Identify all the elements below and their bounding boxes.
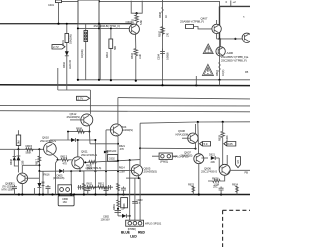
svg-text:5.9: 5.9 xyxy=(204,142,208,146)
svg-text:100K: 100K xyxy=(225,135,229,141)
transistor Q409 right edge xyxy=(242,33,251,42)
callout 2.7V mid xyxy=(77,96,90,100)
wire P601 stub xyxy=(152,155,177,157)
wire right feedback line xyxy=(140,122,250,123)
svg-text:R681: R681 xyxy=(112,204,116,210)
capacitor C401 top xyxy=(56,0,62,3)
wire box right leg xyxy=(99,24,101,80)
wire Q610 emitter xyxy=(52,154,57,160)
svg-text:R624: R624 xyxy=(232,182,238,186)
svg-text:+2: +2 xyxy=(233,0,237,4)
svg-text:470: 470 xyxy=(63,161,68,165)
wire y149.3 input xyxy=(0,148,44,150)
svg-text:R608: R608 xyxy=(76,127,82,131)
wire top rail xyxy=(0,23,132,25)
svg-text:HPLG-3P101: HPLG-3P101 xyxy=(145,222,162,226)
node on thick rail xyxy=(195,84,197,86)
transistor Q408 xyxy=(216,47,225,56)
svg-text:(D606-D5): (D606-D5) xyxy=(53,176,64,180)
cap above rail b xyxy=(46,185,51,195)
resistor R626 zigzag xyxy=(208,175,225,182)
wire vertical x164 xyxy=(162,0,164,85)
svg-text:R507: R507 xyxy=(158,31,162,37)
resistor R402 with thermal box xyxy=(85,24,87,80)
resistor R615 box 1.0M xyxy=(17,130,19,135)
transistor Q608 xyxy=(188,133,198,143)
transistor Q401 xyxy=(129,24,139,34)
transistor Q607 xyxy=(194,154,204,164)
wire Q608 collector up xyxy=(195,124,197,134)
wire Q604 collector from corner xyxy=(117,98,119,125)
wire Q613 emitter down xyxy=(21,184,23,195)
wire bias line xyxy=(58,89,91,91)
resistor R504 zigzag xyxy=(134,49,138,59)
wire y143.8 xyxy=(90,143,118,145)
resistor R609 zigzag xyxy=(77,130,85,133)
wire x198 down xyxy=(197,122,200,153)
resistor R617 xyxy=(38,149,40,194)
svg-text:270: 270 xyxy=(165,32,169,37)
svg-text:(2SC1740S-S): (2SC1740S-S) xyxy=(86,166,102,170)
svg-text:2SA968-Y(TP88_F): 2SA968-Y(TP88_F) xyxy=(180,19,204,23)
svg-text:C504: C504 xyxy=(157,54,161,60)
resistor R507 zigzag xyxy=(161,27,165,37)
svg-text:KRA102M: KRA102M xyxy=(176,132,189,136)
resistor R619 vertical xyxy=(94,140,96,195)
wire Q605 emitter down xyxy=(139,175,141,220)
cap above rail c xyxy=(85,187,90,195)
svg-text:16C: 16C xyxy=(63,200,68,204)
svg-text:R508: R508 xyxy=(158,12,162,18)
wire Q607 base right diode xyxy=(201,157,208,159)
svg-text:PB: PB xyxy=(245,170,249,174)
wire main thick rail xyxy=(0,84,250,87)
component row above rail: caps xyxy=(12,185,17,195)
connector LED 3P xyxy=(126,220,144,226)
svg-text:R504: R504 xyxy=(130,53,134,59)
resistor R620 zigzag xyxy=(89,161,97,164)
svg-text:2.7V: 2.7V xyxy=(78,97,84,101)
wire emitter bus xyxy=(217,38,243,40)
svg-text:R611: R611 xyxy=(87,182,93,186)
resistor R618 zigzag vertical xyxy=(83,183,86,190)
resistor R624 vertical xyxy=(236,186,239,195)
svg-text:R612: R612 xyxy=(98,182,104,186)
wire Q613 base right xyxy=(25,177,39,179)
svg-text:C602: C602 xyxy=(109,157,115,161)
wire box left leg xyxy=(77,24,79,80)
wire base line Q401 xyxy=(78,27,129,29)
warning triangle 1 xyxy=(203,44,213,54)
svg-text:D402: D402 xyxy=(62,62,66,68)
svg-text:R608 220: R608 220 xyxy=(106,149,117,153)
svg-text:R617: R617 xyxy=(34,159,38,165)
capacitor C504 xyxy=(160,49,165,59)
svg-text:560: 560 xyxy=(113,45,117,50)
capacitor C612 xyxy=(79,185,81,190)
callout small xyxy=(186,25,194,29)
svg-text:2SC3246-B(-TP92_F): 2SC3246-B(-TP92_F) xyxy=(94,24,121,28)
resistor R613 zigzag xyxy=(58,158,72,161)
wire Q613 collector up xyxy=(21,165,23,173)
svg-text:R616: R616 xyxy=(44,173,50,177)
svg-text:[P601]: [P601] xyxy=(160,159,168,163)
wire vertical x139.9 xyxy=(139,123,141,165)
loop antenna top xyxy=(131,1,142,13)
wire rail V+ upper xyxy=(78,79,250,81)
connector box 2pin above rail xyxy=(58,185,72,194)
wire C602 chain vertical x106 xyxy=(105,130,107,195)
resistor R615 zigzag xyxy=(26,148,34,151)
resistor zigzag y187 a xyxy=(87,186,95,189)
wire Q612 chain down xyxy=(88,132,91,144)
wire rail mid1 xyxy=(118,98,250,99)
wire Q604 base left xyxy=(106,129,113,131)
wire x55 drop xyxy=(56,160,58,195)
wire Q604 emitter down x118 xyxy=(116,135,118,194)
wire Q401 emitter down xyxy=(135,34,137,80)
node feedback left xyxy=(197,121,199,123)
transistor Q610 xyxy=(44,143,57,156)
wire Q611 collector up xyxy=(77,140,79,157)
capacitor C680 box xyxy=(58,196,74,206)
diode D680 xyxy=(122,214,126,218)
svg-text:D608: D608 xyxy=(9,159,13,165)
svg-text:4.8: 4.8 xyxy=(236,160,240,164)
resistor R681 below rail xyxy=(117,195,120,216)
svg-text:10K(1W): 10K(1W) xyxy=(69,34,73,44)
diode D609 xyxy=(37,183,41,187)
wire Q407 collector-emitter xyxy=(216,20,218,39)
wire left vertical to rail xyxy=(58,0,60,24)
svg-text:5.6K: 5.6K xyxy=(139,20,143,25)
wire vertical x99 xyxy=(98,1,100,79)
svg-text:2SC2655-Y(TP88_F): 2SC2655-Y(TP88_F) xyxy=(221,59,247,63)
diode D602 xyxy=(104,151,108,154)
relay box RY401 xyxy=(78,0,99,24)
svg-text:R614: R614 xyxy=(119,165,125,169)
wire x71 down xyxy=(70,171,72,195)
svg-text:R410: R410 xyxy=(105,52,109,58)
wire x68 down xyxy=(67,132,69,140)
transistor Q612 xyxy=(81,114,93,126)
wire bias corner down xyxy=(89,90,91,114)
wire y140 xyxy=(50,139,95,141)
wire y131.6 xyxy=(68,131,89,133)
resistor R403 vertical branch xyxy=(66,24,68,90)
svg-text:0.05: 0.05 xyxy=(227,142,233,146)
wire Q606 emitter right xyxy=(227,170,250,174)
svg-text:10 (F): 10 (F) xyxy=(221,69,225,76)
wire bottom thick rail xyxy=(0,194,250,196)
wire Q606 collector up xyxy=(226,155,228,165)
resistor R620 zigzag vertical x118 xyxy=(117,183,120,190)
svg-text:1.0M: 1.0M xyxy=(17,140,21,146)
node rail dots xyxy=(18,193,20,195)
svg-text:560K: 560K xyxy=(26,150,32,154)
wire LED pins vertical xyxy=(129,160,131,220)
transistor Q407 xyxy=(212,24,221,33)
cap above rail d xyxy=(104,187,109,195)
wire output top right xyxy=(220,5,251,7)
wire Q612 emitter down xyxy=(88,125,90,132)
capacitor C613 xyxy=(109,185,111,190)
resistor R503 zigzag xyxy=(135,13,139,24)
wire Q610 collector up xyxy=(49,140,51,143)
wire Q607 emitter down xyxy=(198,164,200,195)
cap above rail f xyxy=(219,187,224,195)
wire collector feed y162 xyxy=(85,160,140,163)
svg-text:206: 206 xyxy=(211,160,216,164)
transistor Q605 xyxy=(131,165,142,176)
tick x34 xyxy=(33,188,35,195)
wire Q407 base xyxy=(194,27,213,29)
svg-text:1R(1W): 1R(1W) xyxy=(80,49,84,58)
svg-text:R629: R629 xyxy=(217,135,221,141)
wire Q608 base xyxy=(182,137,190,139)
svg-text:R613: R613 xyxy=(61,154,68,158)
diode D605 xyxy=(59,169,63,173)
svg-text:R502: R502 xyxy=(131,19,135,25)
wire output vertical xyxy=(219,6,221,39)
callout 2.7V xyxy=(52,45,65,49)
transistor Q613 xyxy=(17,173,28,184)
svg-text:1K: 1K xyxy=(164,15,168,18)
diode D604 on y140 xyxy=(71,138,75,142)
cap above rail e xyxy=(121,187,126,195)
wire top edge xyxy=(59,1,220,6)
capacitor marks on pin2 xyxy=(132,201,137,203)
wire rail mid3 xyxy=(0,111,250,112)
wire to diode xyxy=(118,215,122,217)
capacitor C682 xyxy=(115,210,122,212)
svg-text:C611: C611 xyxy=(9,182,15,186)
wire y178 stub xyxy=(126,177,139,179)
capacitor C602 box xyxy=(108,154,118,161)
svg-text:2SA933(S): 2SA933(S) xyxy=(144,170,157,174)
svg-text:25C: 25C xyxy=(213,185,218,189)
wire to thick rail xyxy=(219,80,221,86)
svg-text:D621: D621 xyxy=(209,153,215,157)
resistor R623 vertical xyxy=(192,186,195,195)
svg-text:RED: RED xyxy=(138,230,146,234)
wire rail mid2 xyxy=(0,105,250,107)
node junction out xyxy=(218,38,220,40)
wire Q608 emitter down xyxy=(195,142,197,148)
svg-text:2SA933(S): 2SA933(S) xyxy=(67,115,80,119)
connector P601 xyxy=(159,153,172,159)
diode on rail xyxy=(70,193,73,194)
resistor box 100K below rail xyxy=(121,198,128,208)
svg-text:100-16V: 100-16V xyxy=(101,218,110,222)
callout 5.9 xyxy=(200,142,211,147)
warning triangle 2 xyxy=(202,64,213,75)
resistor zigzag y187 b xyxy=(98,186,106,189)
svg-text:2SC1740S-S: 2SC1740S-S xyxy=(201,170,217,174)
wire into Q606 base xyxy=(218,158,221,170)
transistor Q611 xyxy=(72,157,84,169)
callout 4.8 vertical xyxy=(236,157,241,168)
wire Q611 emitter down xyxy=(80,168,84,195)
node junction xyxy=(98,23,100,25)
transistor Q604 xyxy=(110,124,122,136)
svg-text:100K: 100K xyxy=(122,203,126,209)
wire y171 xyxy=(39,169,134,172)
transistor Q606 xyxy=(219,164,230,175)
wire x222.7 down xyxy=(222,122,224,131)
svg-text:C401: C401 xyxy=(48,3,54,7)
diode D608 xyxy=(17,149,19,172)
wire y187 xyxy=(78,186,114,188)
diode D402 xyxy=(65,51,69,55)
svg-text:2SC1740S-S: 2SC1740S-S xyxy=(81,153,97,157)
svg-text:33B: 33B xyxy=(21,160,25,165)
callout 0.05 xyxy=(224,142,236,147)
resistor R516 xyxy=(219,39,221,80)
svg-text:R623: R623 xyxy=(188,182,194,186)
wire y165 xyxy=(22,164,39,166)
resistor R410 vertical xyxy=(110,28,112,80)
resistor R629 zigzag xyxy=(221,131,224,137)
svg-text:3.3K: 3.3K xyxy=(138,54,142,59)
node junction xyxy=(57,23,59,25)
svg-text:R626: R626 xyxy=(212,177,219,181)
wire x43 drop xyxy=(42,171,44,194)
svg-text:47K: 47K xyxy=(120,147,125,151)
wire Q612 base left xyxy=(70,119,84,121)
svg-text:MTK-153M: MTK-153M xyxy=(2,187,15,191)
svg-text:0.0056: 0.0056 xyxy=(165,52,169,60)
svg-text:2SC1740S-S: 2SC1740S-S xyxy=(40,139,56,143)
svg-text:LED CD: LED CD xyxy=(68,60,72,69)
wire feedback y148 xyxy=(140,147,196,149)
wire dashed corner xyxy=(223,210,250,247)
wire bias vertical left xyxy=(57,68,59,90)
terminal marks output xyxy=(230,1,232,7)
svg-text:R516: R516 xyxy=(215,70,219,76)
svg-text:LED: LED xyxy=(130,234,137,238)
svg-text:2.7V: 2.7V xyxy=(53,45,59,49)
svg-text:2SA933(S): 2SA933(S) xyxy=(181,154,193,158)
